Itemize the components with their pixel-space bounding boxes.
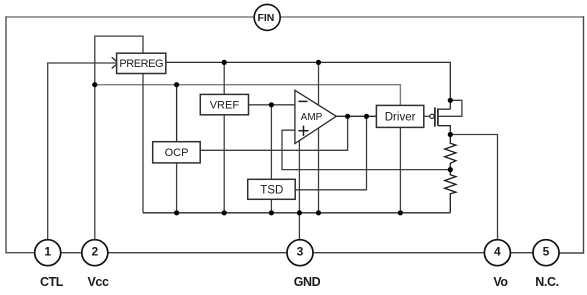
svg-text:2: 2 bbox=[91, 245, 98, 259]
pin 5 circle bbox=[533, 240, 559, 266]
arrowhead into PREREG bbox=[112, 57, 119, 68]
svg-text:5: 5 bbox=[543, 245, 550, 259]
node dot VREF output bbox=[269, 102, 274, 107]
op-amp plus sign bbox=[298, 130, 308, 132]
transistor Q1 top lead bbox=[438, 108, 450, 110]
op-amp U1 AMP triangle bbox=[295, 90, 336, 143]
wire TSD output up to AMP output node bbox=[295, 116, 366, 190]
wire VREF top feed bbox=[223, 62, 225, 94]
svg-text:AMP: AMP bbox=[301, 112, 323, 123]
node dot MOSFET body bbox=[448, 98, 453, 103]
svg-text:4: 4 bbox=[494, 245, 501, 259]
wire pin4 to pin5 bbox=[511, 252, 533, 254]
svg-text:PREREG: PREREG bbox=[119, 58, 163, 70]
wire VREF bottom to GND rail bbox=[223, 115, 225, 213]
wire OCP bottom to GND rail bbox=[176, 163, 178, 213]
svg-text:CTL: CTL bbox=[40, 275, 64, 289]
node dot resistor divider bbox=[448, 167, 453, 172]
wire OCP output to AMP output node bbox=[200, 116, 347, 150]
node dot rail GND pin bbox=[297, 210, 302, 215]
node dot AMP supply top bbox=[316, 60, 321, 65]
wire node VREF output down to GND rail (behind TSD) bbox=[270, 105, 272, 213]
wire AMP ground below triangle to rail and pin3 bbox=[298, 141, 300, 240]
transistor Q1 bottom lead bbox=[438, 126, 450, 135]
wire Vcc rail to Driver top bbox=[95, 85, 401, 106]
node dot Vcc rail / pin2 bbox=[92, 82, 97, 87]
node dot rail VREF bottom bbox=[222, 210, 227, 215]
svg-text:Vcc: Vcc bbox=[87, 275, 108, 289]
transistor Q1 channel bar bbox=[437, 108, 439, 125]
wire AMP plus feedback to resistor divider bbox=[282, 130, 450, 169]
wire Driver bottom to GND rail bbox=[399, 127, 401, 212]
wire OCP top from Vcc rail bbox=[176, 85, 178, 142]
wire PREREG output line to MOSFET bbox=[166, 62, 451, 109]
wire VREF output to AMP minus input bbox=[249, 104, 295, 106]
transistor Q1 gate bar bbox=[434, 107, 436, 126]
block PREREG bbox=[117, 53, 166, 73]
node dot VREF top bbox=[222, 60, 227, 65]
svg-text:3: 3 bbox=[297, 245, 304, 259]
svg-text:1: 1 bbox=[44, 245, 51, 259]
node dot MOSFET drain Vo bbox=[448, 132, 453, 137]
node dot OCP top bbox=[174, 82, 179, 87]
wire pin2 to pin3 bbox=[108, 252, 287, 254]
wire frame top-right from FIN bbox=[281, 16, 584, 18]
wire AMP output to Driver bbox=[336, 115, 376, 117]
block Driver bbox=[376, 105, 423, 127]
svg-text:Driver: Driver bbox=[385, 111, 416, 123]
wire frame top-left from FIN bbox=[6, 16, 254, 18]
node dot rail Driver bottom bbox=[398, 210, 403, 215]
wire Driver to gate circle bbox=[424, 115, 430, 117]
node dot rail AMP supply bottom bbox=[316, 210, 321, 215]
block TSD bbox=[248, 179, 296, 199]
svg-text:GND: GND bbox=[294, 275, 321, 289]
svg-text:TSD: TSD bbox=[260, 185, 283, 197]
wire CTL pin1 up and to PREREG bbox=[48, 63, 117, 240]
node dot AMP output TSD bbox=[364, 114, 369, 119]
wire pin3 to pin4 bbox=[313, 252, 484, 254]
node dot rail TSD center bbox=[269, 210, 274, 215]
svg-text:FIN: FIN bbox=[257, 12, 274, 24]
pin 2 circle bbox=[82, 240, 108, 266]
block OCP bbox=[153, 142, 201, 163]
wire pin1 to pin2 bbox=[61, 252, 82, 254]
svg-text:OCP: OCP bbox=[165, 147, 189, 159]
wire GND rail bbox=[143, 212, 450, 214]
svg-text:N.C.: N.C. bbox=[535, 275, 558, 289]
block VREF bbox=[200, 94, 248, 114]
node dot rail OCP bottom bbox=[174, 210, 179, 215]
pin 1 circle bbox=[35, 240, 61, 266]
wire Vcc pin2 up to rail bbox=[94, 85, 96, 240]
resistor R2 bbox=[445, 170, 456, 213]
resistor R1 bbox=[445, 135, 456, 170]
wire PREREG supply loop bbox=[95, 36, 143, 85]
pin 3 circle bbox=[287, 240, 313, 266]
wire AMP supply rail (behind AMP) bbox=[318, 62, 320, 212]
op-amp minus sign bbox=[298, 100, 307, 102]
transistor Q1 PMOS gate circle bbox=[430, 114, 434, 118]
wire PREREG bottom to GND rail bbox=[142, 74, 144, 213]
node dot AMP output OCP bbox=[345, 114, 350, 119]
pin FIN circle bbox=[254, 4, 280, 30]
svg-text:VREF: VREF bbox=[210, 100, 240, 112]
svg-text:Vo: Vo bbox=[493, 275, 508, 289]
wire Vo line from MOSFET drain node to pin4 bbox=[450, 135, 497, 240]
transistor Q1 body lead loop bbox=[438, 100, 462, 116]
pin 4 circle bbox=[484, 240, 510, 266]
